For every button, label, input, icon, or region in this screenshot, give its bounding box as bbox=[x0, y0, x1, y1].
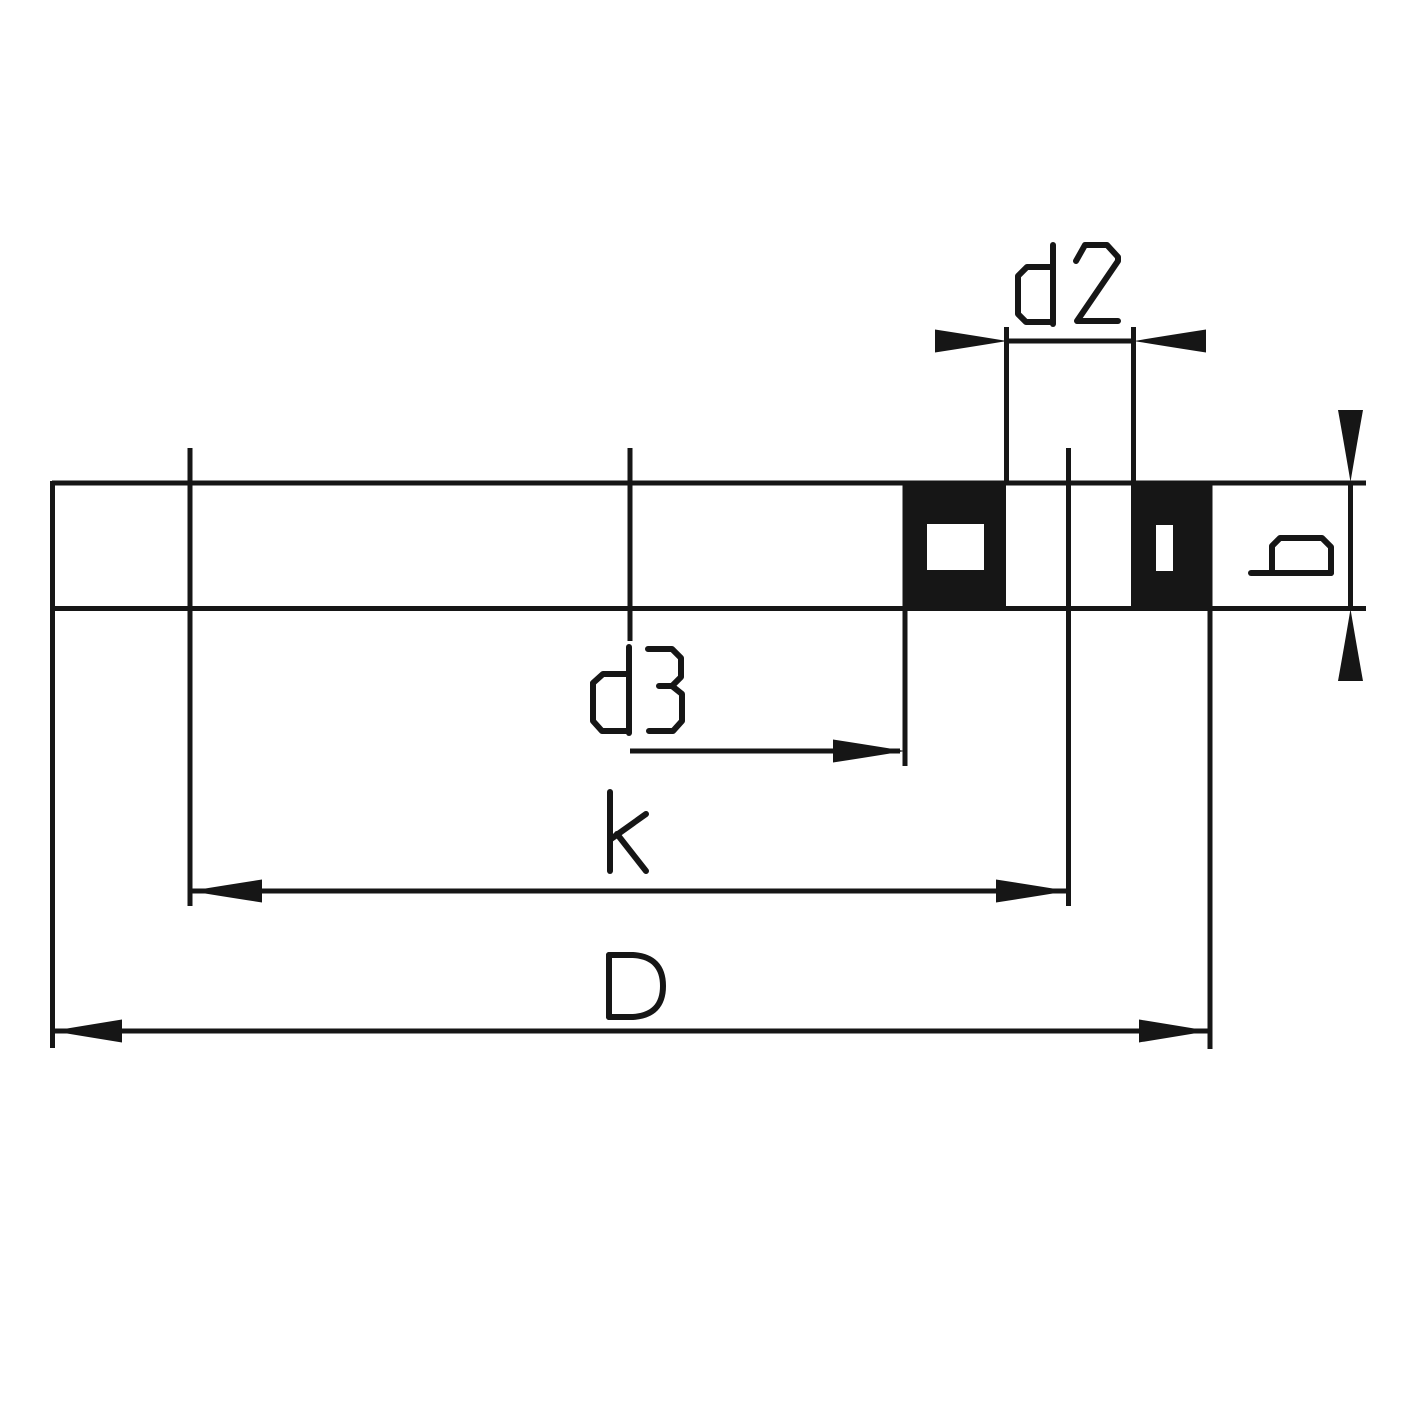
d2 left arrowhead bbox=[935, 330, 1007, 353]
b bottom arrowhead bbox=[1338, 609, 1363, 681]
label D bbox=[606, 955, 612, 1017]
k right extension line bbox=[1066, 448, 1071, 906]
D left arrowhead bbox=[52, 1020, 122, 1043]
label d3: digit 3 bbox=[648, 649, 681, 686]
bolt hole section right (filled) bbox=[1131, 481, 1210, 609]
label k bbox=[607, 792, 613, 871]
d3 extension line (left edge of hole section) bbox=[903, 483, 908, 766]
flange bottom edge bbox=[52, 606, 1366, 611]
b extension line bbox=[1348, 482, 1353, 609]
d2 dimension line bbox=[1007, 339, 1133, 344]
D dimension line bbox=[52, 1029, 1209, 1034]
d2 left extension line bbox=[1004, 327, 1009, 483]
left edge / D left extension line bbox=[50, 481, 55, 1048]
vertical centerline bbox=[628, 448, 633, 641]
b top arrowhead bbox=[1338, 410, 1363, 482]
d3 dimension line bbox=[630, 749, 900, 754]
k dimension line bbox=[190, 889, 1068, 894]
flange top edge bbox=[52, 481, 1366, 486]
D right arrowhead bbox=[1139, 1020, 1209, 1043]
k left arrowhead bbox=[190, 880, 262, 903]
d3 arrowhead bbox=[833, 740, 905, 763]
d2 right extension line bbox=[1131, 327, 1136, 483]
slot in right section (white) bbox=[1156, 525, 1173, 571]
k right arrowhead bbox=[996, 880, 1068, 903]
label d2: digit 2 bbox=[1076, 245, 1118, 321]
k left extension line bbox=[188, 448, 193, 906]
hole in left section (white) bbox=[927, 524, 984, 570]
label d3: letter d bbox=[626, 647, 632, 733]
label b (rotated, reads from right) bbox=[1251, 570, 1331, 576]
label d2: letter d bbox=[1050, 245, 1056, 324]
d2 right arrowhead bbox=[1134, 330, 1206, 353]
D right extension line bbox=[1208, 483, 1213, 1049]
bolt hole section left (filled) bbox=[903, 481, 1006, 609]
